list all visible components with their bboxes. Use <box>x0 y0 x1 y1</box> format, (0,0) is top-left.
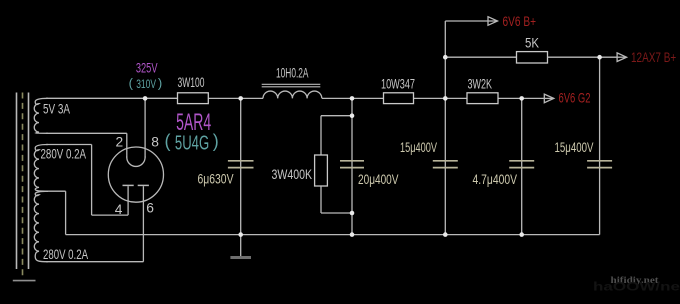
svg-text:280V 0.2A: 280V 0.2A <box>43 247 89 262</box>
svg-text:10H0.2A: 10H0.2A <box>276 65 309 80</box>
svg-text:): ) <box>213 131 219 151</box>
svg-text:12AX7 B+: 12AX7 B+ <box>631 49 676 65</box>
svg-text:15μ400V: 15μ400V <box>400 140 438 155</box>
svg-text:8: 8 <box>151 134 159 149</box>
svg-text:6μ630V: 6μ630V <box>198 171 235 186</box>
svg-text:4: 4 <box>115 202 123 217</box>
svg-text:(: ( <box>129 76 134 91</box>
svg-text:): ) <box>158 76 162 91</box>
svg-text:5V 3A: 5V 3A <box>43 102 71 117</box>
svg-text:3W400K: 3W400K <box>272 167 313 182</box>
svg-text:15μ400V: 15μ400V <box>555 140 595 155</box>
svg-text:6V6 B+: 6V6 B+ <box>503 13 537 29</box>
svg-text:4.7μ400V: 4.7μ400V <box>473 172 518 187</box>
svg-text:5U4G: 5U4G <box>175 133 209 155</box>
svg-text:haOOW/ne: haOOW/ne <box>593 282 680 294</box>
svg-text:325V: 325V <box>136 59 158 75</box>
svg-text:5K: 5K <box>525 35 540 51</box>
svg-text:6: 6 <box>146 201 154 216</box>
svg-text:20μ400V: 20μ400V <box>358 172 399 187</box>
svg-text:3W100: 3W100 <box>178 75 205 90</box>
svg-text:6V6 G2: 6V6 G2 <box>559 89 591 105</box>
svg-text:310V: 310V <box>136 77 156 91</box>
svg-text:280V 0.2A: 280V 0.2A <box>41 147 87 162</box>
svg-text:3W2K: 3W2K <box>468 76 493 91</box>
svg-text:(: ( <box>165 131 171 151</box>
svg-text:2: 2 <box>116 134 124 149</box>
svg-text:10W347: 10W347 <box>381 76 415 91</box>
